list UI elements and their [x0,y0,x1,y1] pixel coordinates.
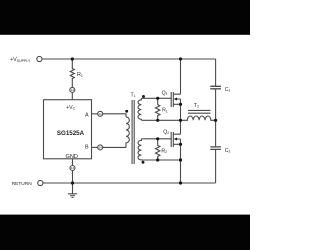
svg-text:13: 13 [71,88,75,92]
pin 13 [70,87,75,92]
IC U1 SG1525A box [44,100,92,159]
svg-text:C1: C1 [225,87,231,93]
wire right rail upper [215,59,217,86]
node return-ground junction [71,181,74,184]
svg-text:R1: R1 [162,108,168,114]
transistor Q2 [171,132,180,147]
svg-text:12: 12 [71,166,75,170]
terminal +VSUPPLY [37,56,42,61]
wire top rail [42,58,216,60]
inductor T2 core [188,110,211,113]
svg-text:R2: R2 [161,148,167,154]
pin 11 [98,111,103,116]
wire upper secondary bottom to node X [141,119,180,121]
node X junction [179,119,182,122]
node C1-C2 midpoint junction [214,119,217,122]
wire pin11 to T1 primary top [103,114,126,117]
pin 12 [70,166,75,171]
node Q1 source junction [179,103,182,106]
inductor T2 coil [181,116,216,120]
ground [68,183,77,198]
resistor R1 supply [70,59,74,87]
T1 primary phase dot [125,110,128,113]
wire Q1 drain to top rail [180,59,182,94]
wire upper secondary top to Q1 gate [141,97,171,99]
T1 upper secondary phase dot [142,95,145,98]
wire pin 12 stub [72,159,74,166]
transformer T1 core [132,100,134,164]
transformer T1 primary coil [126,117,129,147]
resistor R1 gate [156,98,160,120]
svg-text:B: B [85,145,89,151]
node Q2 bottom rail junction [179,181,182,184]
wire right rail middle [215,89,217,146]
wire Q1 source to node X to Q2 drain [180,99,182,134]
svg-text:GND: GND [66,154,78,160]
svg-text:14: 14 [99,146,103,150]
wire pin B [92,146,98,148]
node R1 gate bottom junction [156,119,159,122]
wire pin12 to bottom rail [72,171,74,184]
node supply-R1 junction [71,57,74,60]
wire pin A [92,113,98,115]
svg-text:11: 11 [99,112,102,116]
pin 14 [98,145,103,150]
capacitor C2 [210,147,221,150]
node R1 gate top junction [156,97,159,100]
transformer T1 upper secondary coil [138,98,141,120]
svg-text:Q2: Q2 [163,129,169,135]
wire pin13 to box [71,92,73,99]
node R2 gate top junction [156,137,159,140]
svg-text:RETURN: RETURN [12,181,33,187]
resistor R2 gate [156,139,160,160]
svg-text:Q1: Q1 [162,90,168,96]
wire lower secondary top to Q2 gate [141,138,171,140]
capacitor C1 [210,86,221,89]
node Q1 drain rail junction [179,57,182,60]
transistor Q1 body arrow [174,98,178,101]
svg-text:+VSUPPLY: +VSUPPLY [10,57,31,63]
transistor Q1 [171,92,180,107]
wire T1 primary bottom to pin14 [103,146,126,148]
wire Q2 source to bottom rail [180,139,182,183]
wire bottom rail [43,182,216,184]
svg-text:SG1525A: SG1525A [57,130,85,137]
svg-text:C2: C2 [225,148,231,154]
node R2 gate bottom junction [156,158,159,161]
svg-text:+VC: +VC [66,105,76,111]
svg-text:T1: T1 [131,93,136,99]
terminal RETURN [38,180,43,185]
node Q2 source junction [179,143,182,146]
node Q2 source secondary junction [179,158,182,161]
T1 lower secondary phase dot [142,161,145,164]
wire right rail lower [215,150,217,183]
transformer T1 lower secondary coil [138,139,141,160]
svg-text:A: A [85,112,89,118]
svg-text:T2: T2 [194,103,199,109]
wire lower secondary bottom to Q2 source [141,159,180,161]
transistor Q2 body arrow [174,138,178,141]
